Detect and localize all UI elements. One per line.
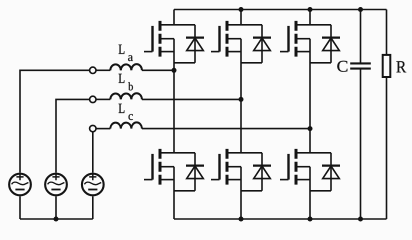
node phase A input terminal [90, 67, 96, 73]
label Lb [119, 74, 133, 91]
wire bottom DC rail [174, 218, 387, 220]
wire phase C: inductor Lc to bridge leg 3 [142, 128, 310, 130]
inductor Lc [110, 122, 142, 128]
wire top DC rail [174, 9, 387, 11]
resistor R [383, 55, 391, 77]
label C [337, 61, 347, 72]
node junction phase C / leg 3 [308, 126, 313, 131]
node phase C input terminal [90, 125, 96, 131]
node junction top rail / leg 3 [308, 7, 313, 12]
diode D1 (antiparallel with Q1) [186, 25, 204, 63]
wire phase A: terminal to inductor La [96, 69, 110, 71]
wire phase A: source va up and across to terminal [20, 70, 90, 172]
wire capacitor bottom lead [360, 69, 362, 219]
label Lc [119, 104, 133, 120]
wire leg 3 lower source vertical to bottom rail [309, 167, 311, 219]
wire vb bottom lead to neutral [55, 196, 57, 219]
node junction top rail / capacitor [358, 7, 363, 12]
inductor La [110, 64, 142, 70]
node phase B input terminal [90, 96, 96, 102]
wire resistor top lead [386, 10, 388, 55]
wire phase B: terminal to inductor Lb [96, 98, 110, 100]
wire leg 2 lower drain riser from phase B node [240, 99, 242, 152]
wire leg 1 upper source vertical to phase A node [173, 39, 175, 71]
node junction bottom rail / leg 2 [239, 217, 244, 222]
diode D2 (antiparallel with Q2) [253, 25, 271, 63]
node junction neutral / vb [54, 217, 59, 222]
node junction bottom rail / leg 3 [308, 217, 313, 222]
label La [119, 45, 133, 62]
wire leg 2 lower source vertical to bottom rail [240, 167, 242, 219]
transistor Q6 (lower MOSFET, leg C) [280, 149, 331, 191]
wire phase C: source vc up to terminal [92, 132, 94, 173]
capacitor C [350, 63, 371, 68]
node junction phase B / leg 2 [239, 97, 244, 102]
wire leg 1 lower source vertical to bottom rail [173, 167, 175, 219]
label R [396, 61, 406, 72]
wire vc bottom lead to neutral [92, 196, 94, 219]
diode D6 (antiparallel with Q6) [322, 153, 340, 191]
diode D3 (antiparallel with Q3) [322, 25, 340, 63]
transistor Q2 (upper MOSFET, leg B) [211, 21, 262, 63]
wire leg 2 upper source vertical to phase B node [240, 39, 242, 100]
wire phase B: inductor Lb to bridge leg 2 [142, 98, 241, 100]
wire phase C: terminal to inductor Lc [96, 128, 110, 130]
wire va bottom lead to neutral [19, 196, 21, 219]
wire leg 1 drain riser (top rail to Q1) [173, 10, 175, 25]
diode D5 (antiparallel with Q5) [253, 153, 271, 191]
wire leg 3 drain riser (top rail to Q3) [309, 10, 311, 25]
node junction bottom rail / capacitor [358, 217, 363, 222]
transistor Q4 (lower MOSFET, leg A) [144, 149, 195, 191]
node junction phase A / leg 1 [172, 68, 177, 73]
wire leg 2 drain riser (top rail to Q2) [240, 10, 242, 25]
ac source vb (phase B) [45, 174, 67, 196]
wire leg 1 lower drain riser from phase A node [173, 70, 175, 153]
transistor Q3 (upper MOSFET, leg C) [280, 21, 331, 63]
inductor Lb [110, 93, 142, 99]
wire leg 3 lower drain riser from phase C node [309, 129, 311, 153]
diode D4 (antiparallel with Q4) [186, 153, 204, 191]
ac source va (phase A) [9, 174, 31, 196]
ac source vc (phase C) [82, 174, 104, 196]
wire leg 3 upper source vertical to phase C node [309, 39, 311, 129]
wire phase B: source vb up and across to terminal [56, 99, 90, 172]
transistor Q5 (lower MOSFET, leg B) [211, 149, 262, 191]
transistor Q1 (upper MOSFET, leg A) [144, 21, 195, 63]
wire resistor bottom lead [386, 77, 388, 219]
node junction top rail / leg 2 [239, 7, 244, 12]
wire neutral bus joining source bottoms [20, 218, 93, 220]
wire capacitor top lead [360, 10, 362, 64]
wire phase A: inductor La to bridge leg 1 [142, 69, 174, 71]
